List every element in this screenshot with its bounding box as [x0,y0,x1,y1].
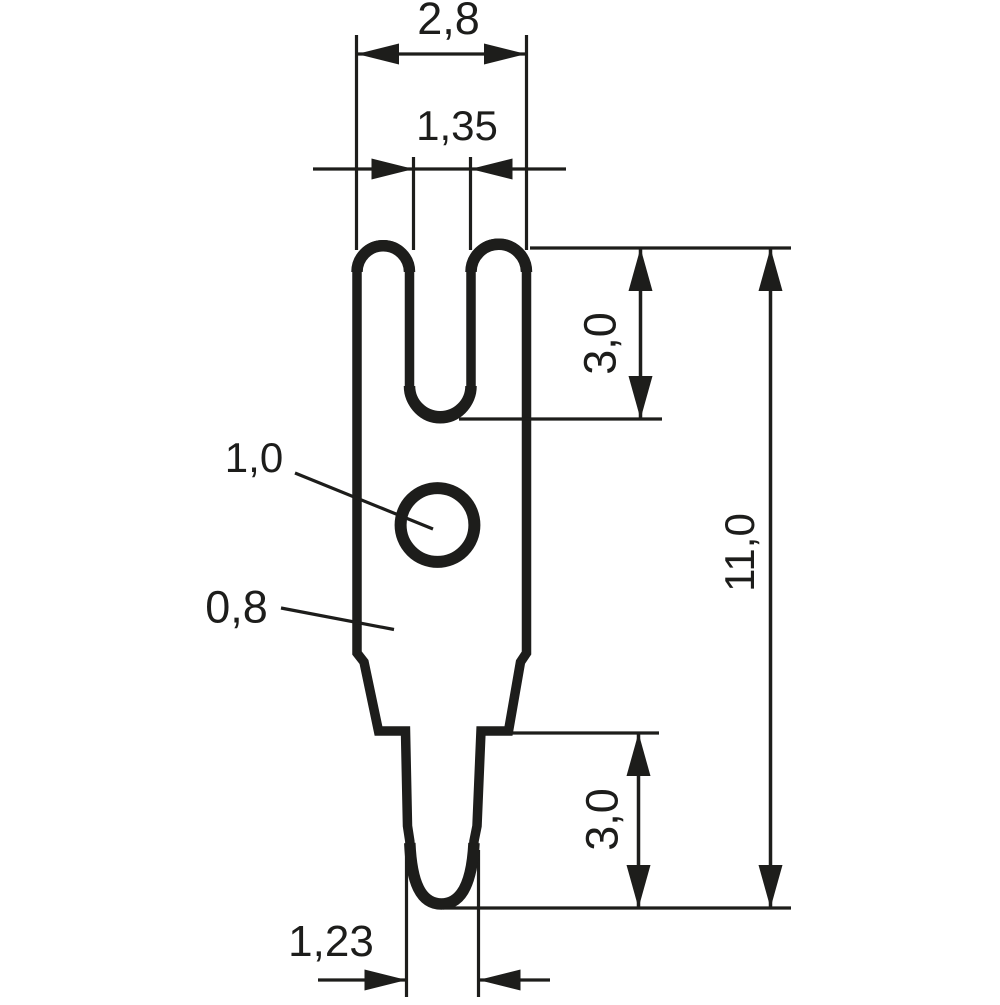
dimension 3,0 bottom: dimension line [637,733,641,908]
dimension 3,0 bottom: upper extension line at pin shoulder [512,731,659,734]
svg-text:0,8: 0,8 [205,582,268,633]
svg-text:3,0: 3,0 [575,312,626,375]
dimension 2,8: arrowhead left [357,44,399,65]
dimension 2,8: extension line right [525,35,528,250]
dimension 3,0 top: dimension line [639,248,643,419]
dimension 2,8: arrowhead right [484,44,526,65]
extension line left of 1,23 dimension (under part) [405,850,408,997]
label 1,0: leader line to hole [295,473,433,529]
dimension 11,0: dimension line [769,248,773,908]
slot bottom U (thick) [410,386,472,417]
shared top extension line (for 3,0 and 11,0) [530,246,791,249]
left prong cap (thick) [357,246,410,272]
dimension 3,0 bottom: arrowhead up [627,733,651,776]
dimension 1,23: left dimension line segment [318,978,407,981]
extension line right of 1,23 dimension (under part) [477,850,480,997]
right prong cap (thick) [471,244,527,272]
dimension 3,0 top: arrowhead down [629,376,653,419]
dimension 1,35: dimension line [313,167,566,170]
label 0,8: leader line to body edge [281,608,394,630]
dimension 3,0 top: lower extension line at slot bottom [459,417,662,420]
svg-text:3,0: 3,0 [577,788,628,851]
dimension 11,0: arrowhead down [759,865,783,908]
dimension 2,8: extension line left [355,35,358,250]
dimension 1,35: extension line left [412,157,415,250]
dimension 1,35: arrowhead pointing left [471,159,513,180]
dimension 11,0: arrowhead up [759,248,783,291]
dimension 1,35: extension line right [469,157,472,250]
svg-text:1,35: 1,35 [416,102,498,149]
svg-text:11,0: 11,0 [716,513,763,592]
dimension 3,0 top: arrowhead up [629,248,653,291]
svg-text:1,23: 1,23 [288,917,374,966]
dimension 1,35: arrowhead pointing right [372,159,414,180]
dimension 3,0 bottom: arrowhead down [627,865,651,908]
svg-text:1,0: 1,0 [225,434,283,481]
dimension 1,23: arrowhead pointing left [479,970,521,991]
pin bottom U (thick) [410,843,474,904]
part outline: solder terminal profile [357,243,527,903]
svg-text:2,8: 2,8 [417,0,480,44]
shared bottom extension line at pin tip (for 3,0 and 11,0) [443,906,791,909]
dimension 1,23: arrowhead pointing right [365,970,407,991]
hole diameter 1,0 [401,488,475,562]
dimension 1,23: right dimension line segment [479,978,551,981]
dimension 2,8: dimension line [357,52,526,55]
